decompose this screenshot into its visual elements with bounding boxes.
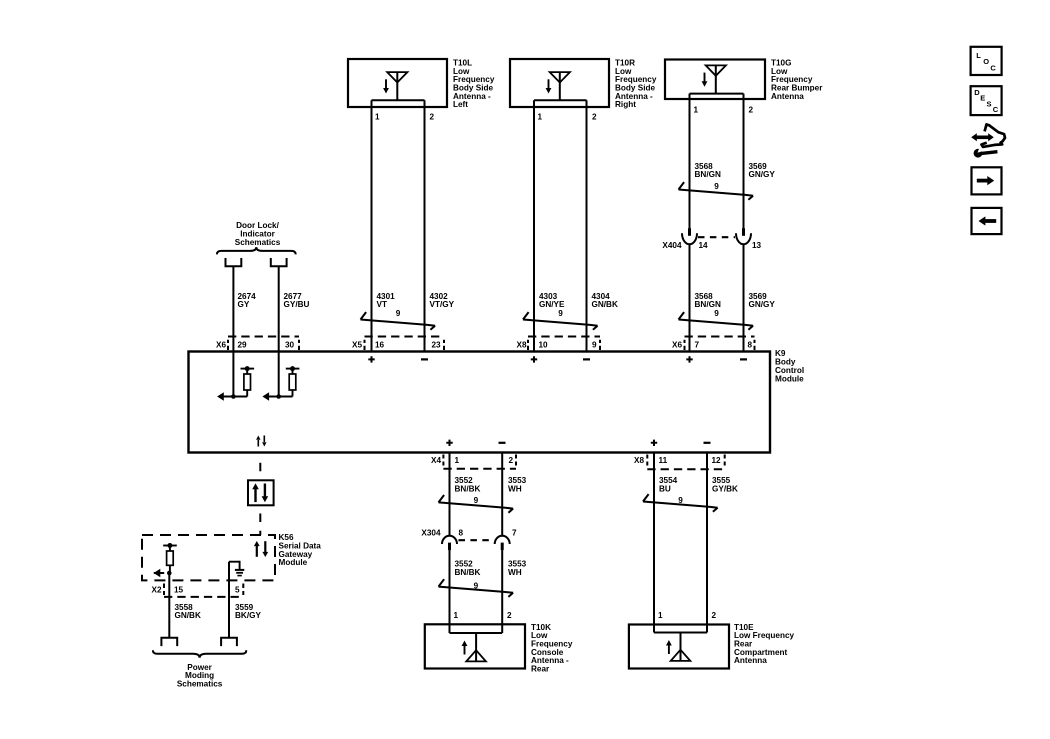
svg-text:Module: Module xyxy=(279,558,308,567)
svg-text:2: 2 xyxy=(509,456,514,465)
connector X6 (7,8) dashed box xyxy=(685,337,755,351)
connector X404 pin 14 xyxy=(682,228,697,244)
antenna T10G box xyxy=(665,60,765,100)
icon diagnostic vehicle with wrench xyxy=(971,124,1005,157)
svg-text:11: 11 xyxy=(659,456,668,465)
wire 3553 WH lower xyxy=(501,550,503,633)
svg-text:9: 9 xyxy=(558,309,563,318)
serial data arrows in link box xyxy=(252,483,268,502)
svg-text:C: C xyxy=(993,105,999,114)
svg-text:X8: X8 xyxy=(516,341,526,350)
icon forward arrow box xyxy=(972,167,1002,194)
svg-text:2: 2 xyxy=(749,105,754,114)
wire 3569 GN/GY upper xyxy=(743,94,745,229)
svg-text:2: 2 xyxy=(712,611,717,620)
label 3569 GN/GY xyxy=(749,162,776,179)
twisted pair symbol xyxy=(679,182,754,200)
label Power Moding Schematics xyxy=(177,663,223,689)
svg-text:Rear: Rear xyxy=(531,665,550,674)
svg-text:Left: Left xyxy=(453,100,468,109)
wire 2677 GY/BU xyxy=(278,266,280,396)
connector X5 (16,23) dashed box xyxy=(365,337,445,351)
svg-text:2: 2 xyxy=(507,611,512,620)
connector X304 dashed joint xyxy=(459,539,494,541)
label 3559 BK/GY xyxy=(235,603,261,620)
svg-text:BN/BK: BN/BK xyxy=(455,484,481,493)
label 3558 GN/BK xyxy=(175,603,201,620)
svg-text:Schematics: Schematics xyxy=(235,238,281,247)
svg-text:9: 9 xyxy=(474,496,479,505)
label 3552 BN/BK xyxy=(455,559,481,576)
wire 4304 GN/BK xyxy=(586,100,588,351)
svg-text:2: 2 xyxy=(430,112,435,121)
brace power moding xyxy=(153,650,246,658)
minus sign X8 xyxy=(583,358,590,360)
svg-text:9: 9 xyxy=(396,309,401,318)
minus sign X6 xyxy=(740,358,747,360)
antenna T10L box xyxy=(348,59,447,107)
svg-text:S: S xyxy=(987,99,992,108)
twisted pair symbol xyxy=(523,312,598,330)
svg-text:BN/GN: BN/GN xyxy=(695,170,721,179)
svg-text:5: 5 xyxy=(235,586,240,595)
connector X4 (1,2) dashed box xyxy=(443,455,516,469)
wire 3555 GY/BK xyxy=(706,453,708,633)
svg-text:C: C xyxy=(990,63,996,72)
label 3553 WH xyxy=(508,559,527,576)
svg-text:WH: WH xyxy=(508,568,522,577)
minus sign X8 xyxy=(704,442,711,444)
antenna symbol T10R xyxy=(546,72,570,100)
svg-text:Antenna: Antenna xyxy=(734,656,767,665)
svg-text:VT/GY: VT/GY xyxy=(430,300,455,309)
svg-text:GY/BU: GY/BU xyxy=(284,300,310,309)
svg-text:X4: X4 xyxy=(431,456,441,465)
svg-text:BN/BK: BN/BK xyxy=(455,568,481,577)
label K9 Body Control Module xyxy=(775,349,804,383)
serial data arrows in K9 xyxy=(256,436,266,447)
svg-text:1: 1 xyxy=(455,456,460,465)
label 4303 GN/YE xyxy=(539,292,565,309)
svg-text:2: 2 xyxy=(592,112,597,121)
connector X8 (10,9) dashed box xyxy=(528,337,600,351)
svg-text:X6: X6 xyxy=(672,341,682,350)
svg-text:GY: GY xyxy=(238,300,250,309)
brace door lock xyxy=(217,247,296,254)
antenna symbol T10L xyxy=(383,72,407,100)
svg-text:Module: Module xyxy=(775,374,804,383)
svg-text:16: 16 xyxy=(375,341,385,350)
wire pin 5 xyxy=(228,562,230,638)
twisted pair symbol xyxy=(361,312,436,330)
plus sign X8 xyxy=(531,356,537,362)
wire 3553 WH upper xyxy=(501,453,503,537)
label 4304 GN/BK xyxy=(592,292,618,309)
connector X404 pin 13 xyxy=(736,228,751,244)
plus sign X5 xyxy=(368,356,374,362)
svg-text:X2: X2 xyxy=(151,586,161,595)
icon LOC box xyxy=(971,47,1002,75)
svg-text:9: 9 xyxy=(714,182,719,191)
wire 2674 GY xyxy=(232,266,234,396)
label 3569 GN/GY xyxy=(749,292,776,309)
wire 4303 GN/YE xyxy=(533,100,535,351)
antenna symbol T10K xyxy=(462,633,486,661)
off-page connector 2674 xyxy=(226,258,242,266)
label 3568 BN/GN xyxy=(695,292,721,309)
wire 3554 BU xyxy=(653,453,655,633)
svg-text:X8: X8 xyxy=(634,456,644,465)
svg-text:BK/GY: BK/GY xyxy=(235,611,261,620)
svg-text:GN/GY: GN/GY xyxy=(749,300,776,309)
twisted pair symbol xyxy=(439,579,514,597)
svg-text:7: 7 xyxy=(512,529,517,538)
antenna T10E box xyxy=(629,625,729,669)
label T10K xyxy=(531,623,573,674)
label 3555 GY/BK xyxy=(712,476,738,493)
twisted pair symbol xyxy=(679,312,754,330)
module K9 Body Control Module xyxy=(189,352,771,453)
svg-text:L: L xyxy=(976,51,981,60)
label Door Lock/Indicator Schematics xyxy=(235,221,281,247)
antenna T10K box xyxy=(425,624,525,668)
svg-text:9: 9 xyxy=(714,309,719,318)
wire 4302 VT/GY xyxy=(424,100,426,351)
off-page connector 3558 xyxy=(161,638,177,646)
connector X6 (29,30) dashed box xyxy=(228,337,299,351)
connector X304 pin 8 xyxy=(442,536,457,550)
label 4302 VT/GY xyxy=(430,292,455,309)
resistor pull-up pin 30 xyxy=(262,366,299,401)
icon DESC box xyxy=(971,86,1002,115)
svg-text:Right: Right xyxy=(615,100,636,109)
svg-text:12: 12 xyxy=(712,456,722,465)
svg-text:9: 9 xyxy=(592,341,597,350)
connector X304 pin 7 xyxy=(495,536,510,550)
svg-text:10: 10 xyxy=(539,341,549,350)
label K56 Serial Data Gateway Module xyxy=(279,533,322,567)
twisted pair symbol xyxy=(439,495,514,513)
svg-text:GN/GY: GN/GY xyxy=(749,170,776,179)
serial data link box xyxy=(248,480,274,505)
connector X404 dashed joint xyxy=(698,236,735,238)
serial data arrows in K56 xyxy=(254,541,268,557)
resistor pull-up pin 29 xyxy=(217,366,254,401)
svg-text:1: 1 xyxy=(658,611,663,620)
svg-text:GN/BK: GN/BK xyxy=(175,611,201,620)
antenna symbol T10E xyxy=(666,633,690,661)
wire 3552 BN/BK lower xyxy=(449,550,451,633)
plus sign X4 xyxy=(446,440,452,446)
svg-text:GN/BK: GN/BK xyxy=(592,300,618,309)
svg-text:13: 13 xyxy=(752,241,762,250)
svg-text:29: 29 xyxy=(238,341,248,350)
svg-text:1: 1 xyxy=(375,112,380,121)
svg-text:X5: X5 xyxy=(352,341,362,350)
svg-text:7: 7 xyxy=(695,341,700,350)
svg-text:WH: WH xyxy=(508,484,522,493)
svg-text:GY/BK: GY/BK xyxy=(712,484,738,493)
svg-text:8: 8 xyxy=(459,529,464,538)
svg-text:X404: X404 xyxy=(662,241,682,250)
svg-text:Schematics: Schematics xyxy=(177,680,223,689)
wire 4301 VT xyxy=(371,100,373,351)
label T10R xyxy=(615,58,657,109)
label T10E xyxy=(734,623,794,665)
wire 3568 BN/GN lower xyxy=(689,245,691,352)
off-page connector 2677 xyxy=(271,258,287,266)
connector X8 (11,12) dashed box xyxy=(647,455,724,470)
minus sign X5 xyxy=(421,358,428,360)
twisted pair symbol xyxy=(643,494,718,512)
antenna symbol T10G xyxy=(702,65,726,93)
label 2674 GY xyxy=(238,292,257,309)
wire 3569 GN/GY lower xyxy=(743,245,745,352)
plus sign X6 xyxy=(686,356,692,362)
svg-text:14: 14 xyxy=(699,241,709,250)
svg-text:1: 1 xyxy=(538,112,543,121)
antenna T10R box xyxy=(510,59,609,107)
svg-text:X6: X6 xyxy=(216,341,226,350)
label 4301 VT xyxy=(377,292,396,309)
ground in K56 xyxy=(229,561,244,576)
connector X2 (15,5) dashed box xyxy=(164,584,243,597)
svg-text:E: E xyxy=(980,94,985,103)
svg-text:1: 1 xyxy=(694,105,699,114)
svg-text:23: 23 xyxy=(432,341,442,350)
label T10L xyxy=(453,58,495,109)
minus sign X4 xyxy=(499,442,506,444)
label 3553 WH xyxy=(508,476,527,493)
label 2677 GY/BU xyxy=(284,292,310,309)
wire pin 15 xyxy=(168,573,170,638)
plus sign X8 xyxy=(651,440,657,446)
icon back arrow box xyxy=(972,208,1002,234)
svg-text:15: 15 xyxy=(174,586,184,595)
label T10G xyxy=(771,58,823,100)
svg-text:30: 30 xyxy=(285,341,295,350)
svg-text:O: O xyxy=(983,57,989,66)
resistor pull-up in K56 xyxy=(154,543,177,577)
svg-text:1: 1 xyxy=(454,611,459,620)
wire 3568 BN/GN upper xyxy=(689,94,691,229)
label 3554 BU xyxy=(659,476,678,493)
svg-text:VT: VT xyxy=(377,300,387,309)
svg-text:BU: BU xyxy=(659,484,671,493)
svg-text:X304: X304 xyxy=(421,529,441,538)
module K56 Serial Data Gateway Module dashed box xyxy=(142,535,275,580)
wire 3552 BN/BK upper xyxy=(449,453,451,537)
svg-text:8: 8 xyxy=(748,341,753,350)
label 3568 BN/GN xyxy=(695,162,721,179)
dashed serial data wire K9 to gateway xyxy=(259,463,261,535)
off-page connector 3559 xyxy=(221,638,237,646)
svg-text:Antenna: Antenna xyxy=(771,92,804,101)
label 3552 BN/BK xyxy=(455,476,481,493)
